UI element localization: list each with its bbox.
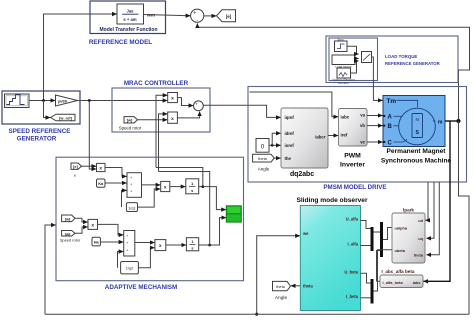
svg-text:S: S: [415, 130, 419, 136]
svg-text:ioref: ioref: [285, 143, 295, 148]
svg-text:Inverter: Inverter: [340, 161, 365, 168]
svg-text:Number: Number: [338, 81, 349, 85]
svg-text:Ka: Ka: [98, 181, 104, 186]
svg-text:Sliding mode observer: Sliding mode observer: [296, 197, 368, 204]
svg-text:x: x: [171, 117, 174, 122]
svg-text:[w]: [w]: [65, 231, 71, 236]
svg-text:e: e: [74, 173, 76, 178]
svg-text:MRAC CONTROLLER: MRAC CONTROLLER: [124, 80, 189, 87]
svg-text:GENERATOR: GENERATOR: [17, 135, 57, 142]
svg-text:Synchronous Machine: Synchronous Machine: [381, 158, 452, 165]
svg-text:we: we: [302, 231, 309, 236]
svg-text:[w_ref]: [w_ref]: [59, 115, 72, 120]
svg-text:U_alfa: U_alfa: [346, 217, 359, 222]
svg-text:Model Transfer Function: Model Transfer Function: [99, 27, 157, 33]
svg-text:+: +: [193, 10, 196, 16]
svg-text:1/q1: 1/q1: [128, 206, 136, 211]
svg-text:1/q2: 1/q2: [126, 266, 134, 271]
svg-text:Jas: Jas: [127, 8, 135, 13]
svg-text:PMSM MODEL DRIVE: PMSM MODEL DRIVE: [323, 184, 386, 191]
svg-text:x: x: [159, 244, 162, 249]
svg-text:s: s: [191, 188, 193, 193]
svg-text:iqref: iqref: [285, 115, 295, 120]
svg-text:[w]: [w]: [127, 118, 133, 123]
svg-text:uq: uq: [418, 236, 423, 241]
svg-text:dq2abc: dq2abc: [290, 171, 314, 178]
svg-text:Angle: Angle: [275, 295, 288, 301]
svg-text:pi/30: pi/30: [58, 98, 67, 103]
svg-text:Speed rotor: Speed rotor: [60, 238, 81, 243]
svg-text:lpark: lpark: [403, 208, 414, 213]
svg-text:the: the: [285, 156, 292, 161]
svg-text:i_alfa_beta: i_alfa_beta: [383, 280, 404, 285]
svg-text:[w]: [w]: [65, 216, 71, 221]
svg-text:Tm: Tm: [387, 98, 397, 105]
svg-text:Permanent Magnet: Permanent Magnet: [387, 148, 447, 155]
svg-text:I_abc_alfa beta: I_abc_alfa beta: [382, 269, 415, 274]
svg-text:LOAD TORQUE: LOAD TORQUE: [385, 54, 417, 59]
svg-text:wm: wm: [146, 13, 155, 18]
svg-text:ADAPTIVE MECHANISM: ADAPTIVE MECHANISM: [105, 284, 177, 291]
svg-text:I_alfa: I_alfa: [348, 242, 359, 247]
svg-text:iabc: iabc: [413, 280, 422, 285]
svg-text:x: x: [99, 167, 102, 172]
svg-text:ud: ud: [418, 218, 423, 223]
svg-text:vc: vc: [360, 140, 365, 145]
svg-text:U_beta: U_beta: [344, 270, 358, 275]
svg-text:[e]: [e]: [226, 14, 232, 19]
svg-text:x: x: [164, 186, 167, 191]
svg-text:idref: idref: [285, 131, 295, 136]
svg-text:I_beta: I_beta: [346, 294, 359, 299]
svg-text:REFERENCE GENERATOR: REFERENCE GENERATOR: [385, 61, 441, 66]
svg-text:theta: theta: [303, 284, 314, 289]
svg-text:va: va: [360, 113, 365, 118]
svg-text:theta: theta: [414, 253, 424, 258]
svg-text:s: s: [191, 246, 193, 251]
svg-text:PWM: PWM: [344, 152, 361, 159]
svg-text:B: B: [388, 124, 393, 130]
svg-text:[e]: [e]: [73, 164, 78, 169]
svg-text:Ha: Ha: [94, 240, 100, 245]
svg-text:x: x: [91, 223, 94, 228]
svg-text:iabc: iabc: [341, 115, 350, 120]
svg-text:s + am: s + am: [123, 17, 136, 22]
svg-text:A: A: [388, 115, 393, 121]
svg-text:C: C: [388, 140, 393, 146]
svg-text:iref: iref: [341, 133, 348, 138]
svg-text:vb: vb: [360, 123, 365, 128]
svg-text:theta: theta: [258, 156, 267, 161]
svg-text:Speed rotor: Speed rotor: [119, 125, 142, 130]
svg-text:N: N: [416, 117, 419, 122]
svg-text:x: x: [171, 97, 174, 102]
svg-text:theta: theta: [276, 284, 285, 289]
svg-text:ualpha: ualpha: [395, 226, 408, 231]
svg-text:iabcr: iabcr: [315, 134, 326, 139]
svg-text:ubeta: ubeta: [395, 248, 406, 253]
svg-text:SPEED REFERENCE: SPEED REFERENCE: [9, 128, 71, 135]
svg-text:Angle: Angle: [258, 166, 270, 171]
svg-text:REFERENCE MODEL: REFERENCE MODEL: [89, 39, 152, 46]
svg-text:-: -: [196, 18, 198, 24]
svg-text:m: m: [438, 120, 443, 126]
